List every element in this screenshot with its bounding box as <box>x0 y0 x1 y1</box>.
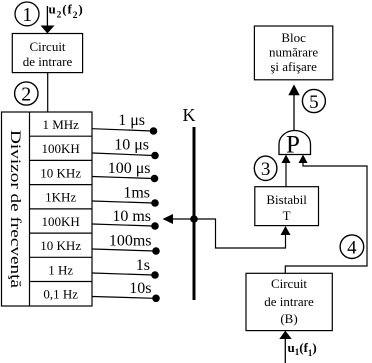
svg-text:10 KHz: 10 KHz <box>40 238 81 253</box>
tap wire 1ms <box>93 199 159 207</box>
svg-text:Bloc: Bloc <box>281 30 306 45</box>
svg-text:şi afişare: şi afişare <box>270 59 317 74</box>
switch K selector arrow (points to 10ms tap) <box>163 214 195 224</box>
svg-text:Circuit: Circuit <box>29 39 65 54</box>
svg-text:10 ms: 10 ms <box>112 208 151 225</box>
tap wire 1us <box>93 127 158 135</box>
svg-text:1 MHz: 1 MHz <box>42 117 79 132</box>
switch K junction dot <box>190 215 198 223</box>
svg-text:100KH: 100KH <box>42 214 80 229</box>
node 5 marker <box>302 89 325 112</box>
svg-text:3: 3 <box>261 159 271 180</box>
svg-text:de intrare: de intrare <box>264 294 314 309</box>
svg-text:de intrare: de intrare <box>23 54 73 69</box>
tap wire 10ms <box>93 222 159 230</box>
node 4 marker <box>340 235 364 259</box>
node 1 marker <box>15 2 39 26</box>
gate P (AND gate) <box>279 131 311 159</box>
wire K junction to Bistabil T input <box>194 219 291 248</box>
tap wire 10s <box>93 295 160 303</box>
svg-text:100 μs: 100 μs <box>108 160 151 177</box>
node 2 marker <box>15 82 38 106</box>
tap wire 100ms <box>93 247 160 255</box>
svg-text:4: 4 <box>347 237 357 258</box>
wire input circuit B to gate P <box>285 155 367 274</box>
tap wire 1s <box>93 271 159 279</box>
svg-text:K: K <box>183 105 196 125</box>
svg-text:Bistabil: Bistabil <box>266 192 307 207</box>
svg-text:2: 2 <box>21 84 31 106</box>
svg-text:numărare: numărare <box>269 45 318 60</box>
svg-text:T: T <box>283 208 291 223</box>
svg-text:P: P <box>286 132 300 159</box>
svg-text:100ms: 100ms <box>109 233 152 250</box>
display block box (Bloc numarare si afisare) <box>254 26 332 80</box>
svg-text:0,1 Hz: 0,1 Hz <box>43 287 78 302</box>
switch K blade <box>193 127 196 300</box>
svg-text:10s: 10s <box>129 280 151 297</box>
svg-text:1KHz: 1KHz <box>45 190 76 205</box>
svg-text:1 Hz: 1 Hz <box>48 263 73 278</box>
svg-text:1s: 1s <box>136 257 150 274</box>
svg-text:10 KHz: 10 KHz <box>40 166 81 181</box>
wire u2 input <box>41 6 55 34</box>
input circuit A box (Circuit de intrare) <box>12 34 82 73</box>
svg-text:5: 5 <box>309 92 319 113</box>
svg-text:1ms: 1ms <box>123 185 150 202</box>
svg-text:10 μs: 10 μs <box>114 137 149 154</box>
input circuit B box <box>246 273 332 330</box>
svg-text:Circuit: Circuit <box>271 276 307 291</box>
svg-text:(B): (B) <box>280 311 297 326</box>
frequency divider block outline <box>2 112 93 306</box>
node 3 marker <box>254 156 277 180</box>
tap wire 100us <box>93 175 159 183</box>
wire gate P to display block <box>288 84 299 130</box>
wire u1 input <box>279 331 291 363</box>
svg-text:100KH: 100KH <box>42 141 80 156</box>
svg-text:Divizor de frecvenţă: Divizor de frecvenţă <box>7 130 23 288</box>
bistabil T box <box>255 187 319 226</box>
wire Bistabil T to gate P <box>282 155 291 187</box>
svg-text:1: 1 <box>22 4 32 26</box>
tap wire 10us <box>93 152 159 160</box>
svg-text:1 μs: 1 μs <box>118 112 145 129</box>
wire input circuit A to divider <box>47 73 49 112</box>
